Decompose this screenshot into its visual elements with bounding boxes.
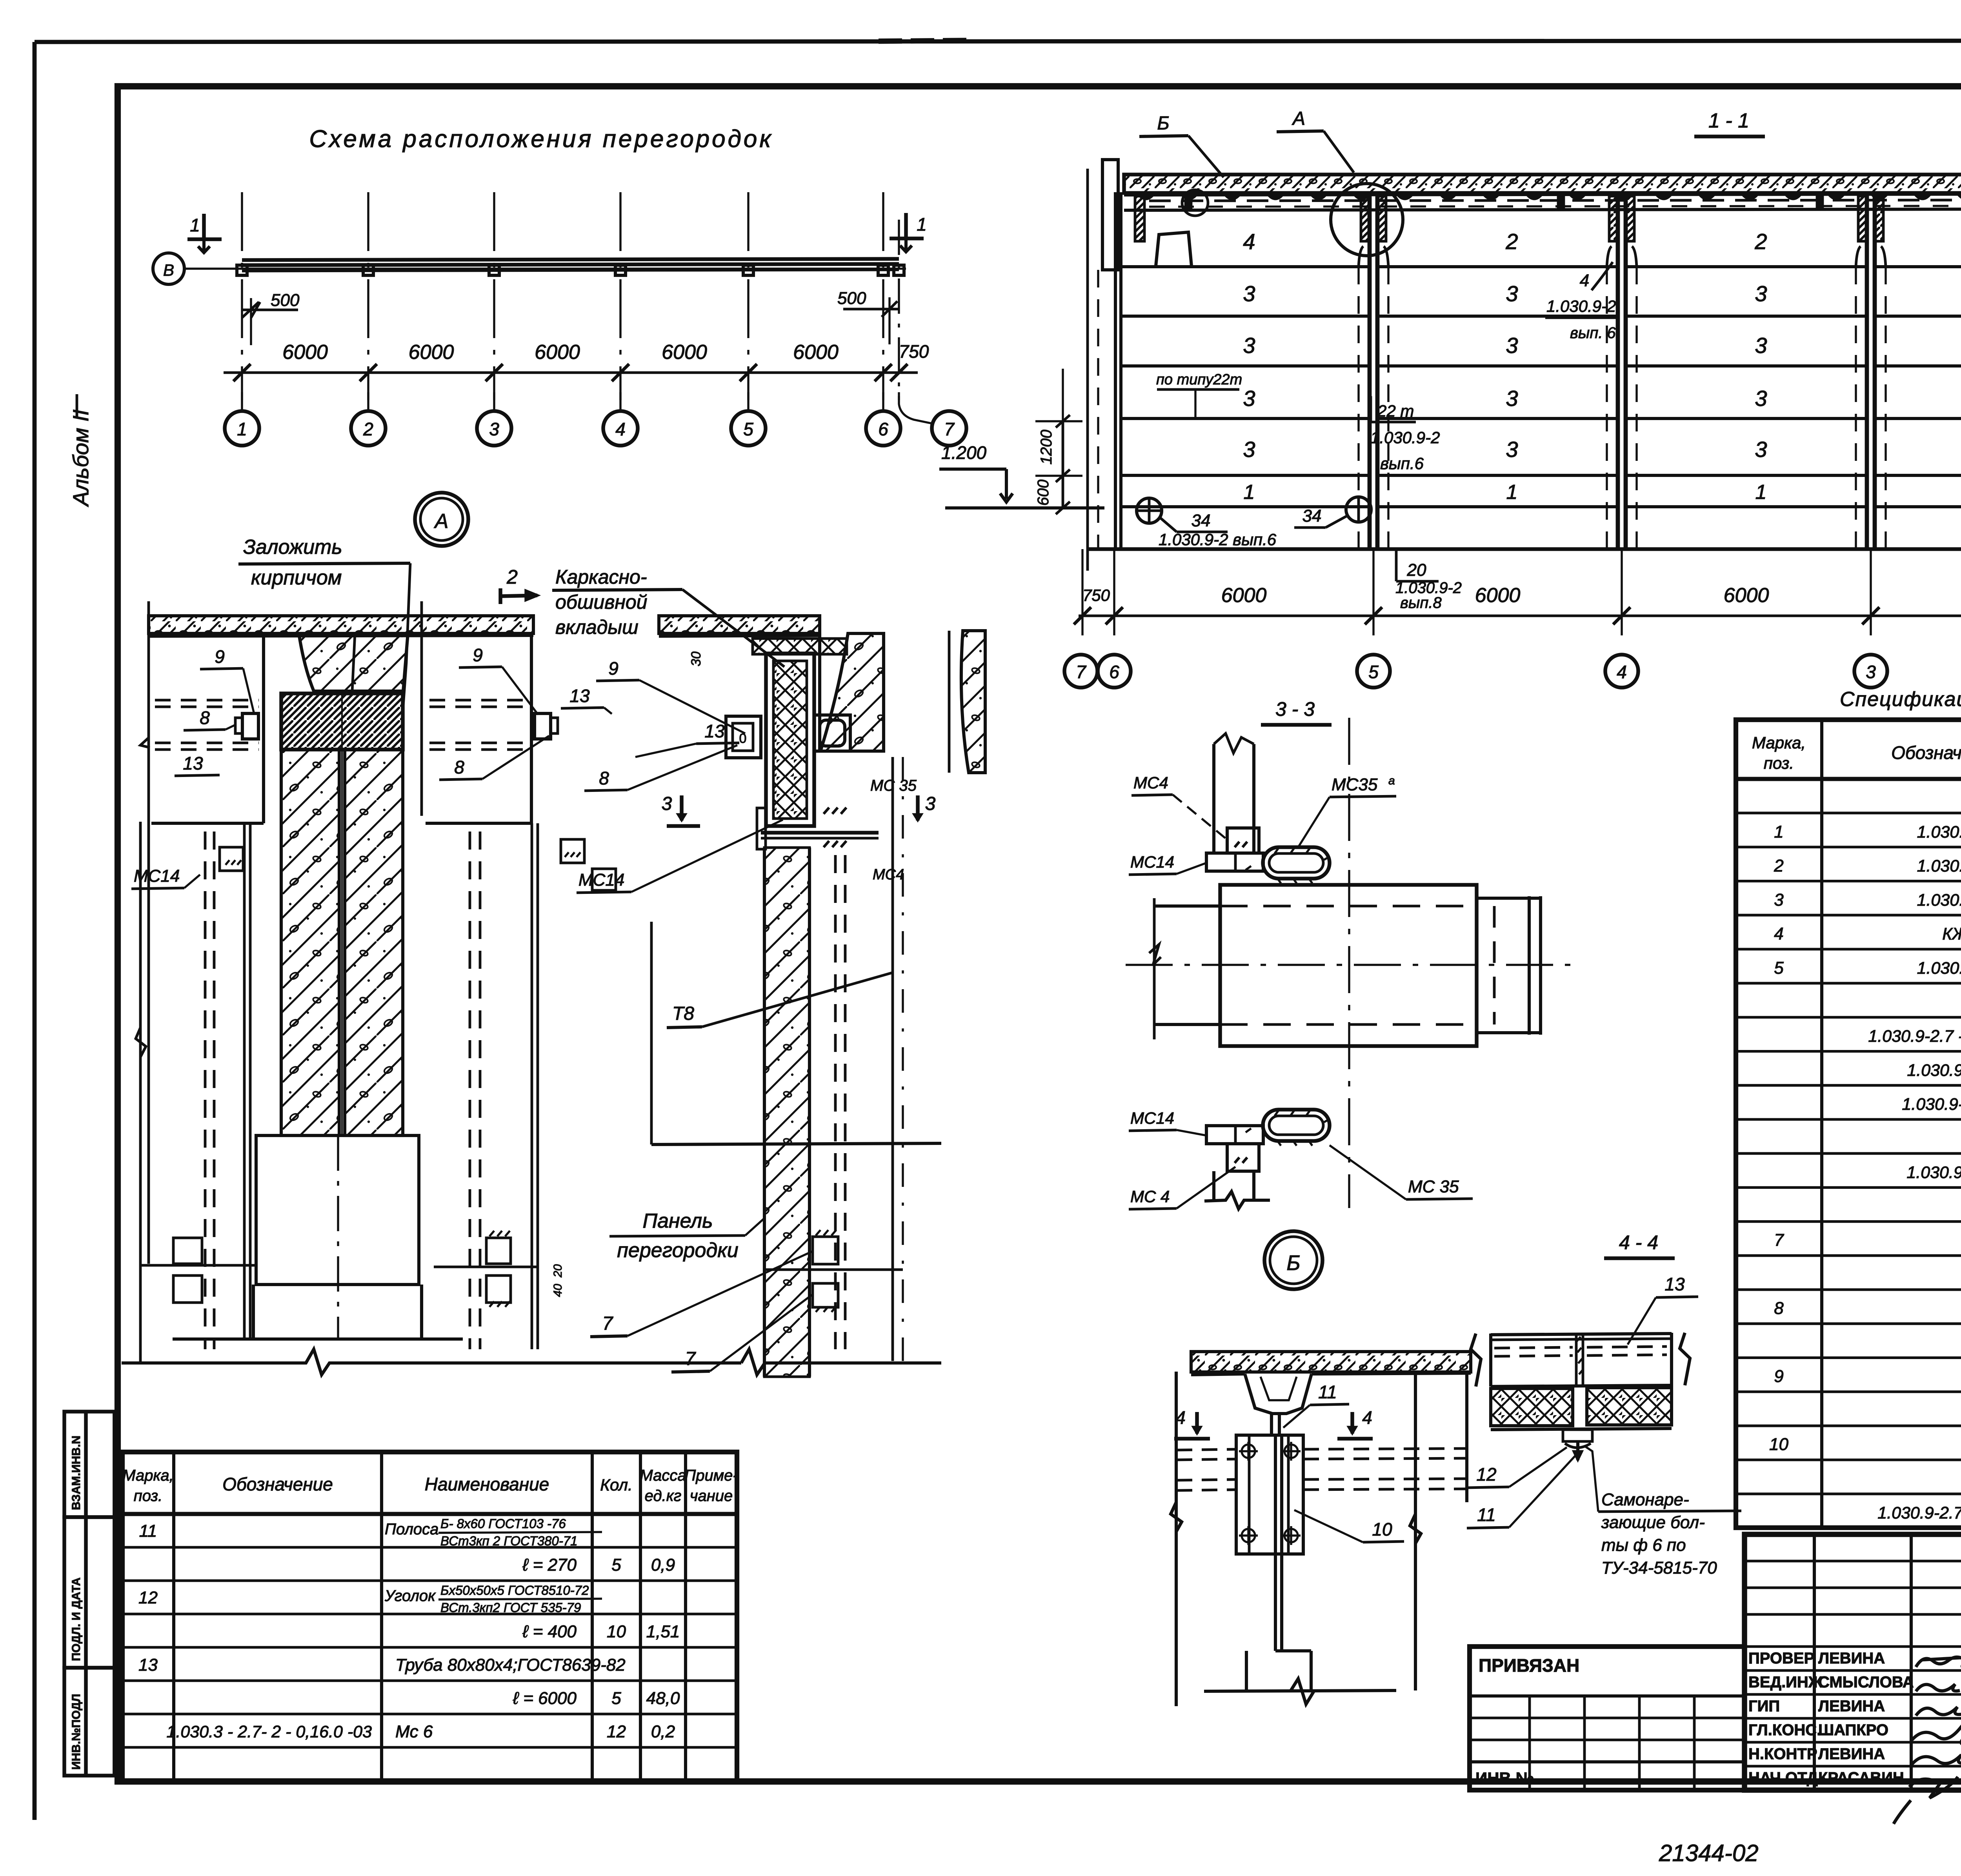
MC4 box bottom: [1227, 1144, 1259, 1171]
plan axis circles: [225, 411, 259, 446]
svg-text:13: 13: [704, 721, 725, 741]
svg-text:Приме-: Приме-: [684, 1467, 738, 1484]
dashed panel lines left: [155, 699, 259, 702]
svg-text:600: 600: [1035, 480, 1052, 506]
svg-text:ПРИВЯЗАН: ПРИВЯЗАН: [1479, 1655, 1579, 1676]
panel strip below T8: [763, 848, 766, 1377]
svg-text:Марка,: Марка,: [1752, 733, 1806, 752]
svg-text:Панель: Панель: [642, 1210, 713, 1232]
svg-text:МС4: МС4: [1133, 773, 1168, 792]
svg-text:1.030.9-2.7 -2- 0.16.а -02: 1.030.9-2.7 -2- 0.16.а -02: [1868, 1027, 1961, 1046]
svg-text:Т8: Т8: [672, 1003, 694, 1024]
svg-text:1.030.9-2 вып.6: 1.030.9-2 вып.6: [1159, 530, 1277, 549]
svg-text:Б- 8х60 ГОСТ103 -76: Б- 8х60 ГОСТ103 -76: [440, 1516, 566, 1531]
left haunch: [299, 633, 408, 691]
detail B rib: [1245, 1374, 1312, 1414]
title block right part: [1745, 1534, 1961, 1790]
svg-text:ед.кг: ед.кг: [645, 1487, 682, 1505]
svg-text:МС 4: МС 4: [1130, 1187, 1170, 1206]
horizontal line mid detail: [651, 1143, 941, 1145]
xx packing under slab: [753, 639, 847, 654]
svg-text:1.030.9-2: 1.030.9-2: [1546, 297, 1616, 315]
svg-text:6000: 6000: [1221, 584, 1267, 607]
left wall lines: [1086, 169, 1089, 571]
svg-text:поз.: поз.: [134, 1487, 163, 1505]
section bottom dim line: [1079, 615, 1961, 617]
svg-text:Обозначение: Обозначение: [1891, 742, 1961, 763]
dashed lines under roof: [1149, 200, 1961, 201]
svg-text:4: 4: [615, 419, 626, 439]
plan main dim line: [224, 371, 918, 374]
detail B slab band: [1191, 1352, 1471, 1372]
svg-text:обшивной: обшивной: [555, 591, 647, 613]
svg-text:вып. 6: вып. 6: [1570, 324, 1616, 342]
svg-text:1: 1: [1244, 481, 1255, 504]
detail circle A on section: [1331, 184, 1403, 256]
svg-text:4 - 4: 4 - 4: [1619, 1232, 1658, 1254]
svg-text:ЛЕВИНА: ЛЕВИНА: [1818, 1745, 1885, 1763]
svg-text:МС 35: МС 35: [870, 777, 917, 794]
dashed connector squares lower: [173, 1238, 202, 1264]
svg-text:5: 5: [611, 1556, 621, 1575]
base strip: [252, 1285, 255, 1339]
svg-text:11: 11: [1477, 1505, 1496, 1525]
section panel top line: [1124, 209, 1961, 210]
svg-text:3: 3: [925, 793, 936, 814]
svg-text:Марка,: Марка,: [122, 1467, 174, 1484]
svg-text:ЛЕВИНА: ЛЕВИНА: [1818, 1698, 1885, 1715]
svg-text:ВЕД.ИНЖ: ВЕД.ИНЖ: [1748, 1674, 1823, 1691]
svg-text:по типу22т: по типу22т: [1156, 371, 1242, 388]
section interior columns: [1368, 193, 1372, 549]
svg-text:3: 3: [662, 793, 672, 814]
svg-text:1.030.9 - 2.1 - 05.0: 1.030.9 - 2.1 - 05.0: [1917, 857, 1961, 875]
svg-text:20: 20: [551, 1264, 564, 1278]
signature column lines: [1743, 1534, 1746, 1790]
svg-text:4: 4: [1774, 924, 1783, 944]
svg-text:6000: 6000: [1724, 584, 1769, 607]
svg-text:Самонаре-: Самонаре-: [1601, 1490, 1689, 1509]
connector boxes mid second: [561, 839, 584, 863]
svg-text:6000: 6000: [535, 341, 580, 364]
svg-text:Заложить: Заложить: [243, 536, 342, 559]
svg-text:3: 3: [1774, 890, 1784, 910]
svg-text:1: 1: [1755, 481, 1767, 504]
panel right extension: [1477, 897, 1541, 900]
svg-text:3: 3: [1506, 386, 1518, 411]
svg-text:1 - 1: 1 - 1: [1708, 109, 1749, 132]
4-4 fastener: [1563, 1430, 1592, 1441]
svg-text:20: 20: [1407, 560, 1426, 580]
svg-text:11: 11: [139, 1521, 157, 1541]
svg-text:0,9: 0,9: [651, 1556, 675, 1575]
svg-text:1.030.9- 2.4 - 03 КМ: 1.030.9- 2.4 - 03 КМ: [1907, 1061, 1961, 1080]
axis B circle: [153, 253, 184, 284]
svg-text:2: 2: [1774, 856, 1783, 875]
svg-text:3: 3: [1243, 386, 1255, 411]
svg-text:кирпичом: кирпичом: [251, 566, 342, 589]
svg-text:ГИП: ГИП: [1748, 1698, 1780, 1715]
svg-text:Бх50х50х5 ГОСТ8510-72: Бх50х50х5 ГОСТ8510-72: [440, 1583, 589, 1598]
svg-text:4: 4: [1617, 662, 1627, 682]
svg-text:3: 3: [1506, 281, 1518, 306]
svg-text:500: 500: [271, 291, 300, 310]
svg-text:9: 9: [215, 646, 225, 667]
svg-text:зающие бол-: зающие бол-: [1601, 1513, 1705, 1532]
svg-text:А: А: [434, 510, 449, 533]
svg-text:В: В: [163, 261, 174, 279]
svg-text:а: а: [1388, 774, 1395, 787]
svg-text:8: 8: [599, 768, 609, 788]
svg-text:2: 2: [506, 566, 518, 588]
callout 34 bottom-left pair: [1137, 498, 1162, 523]
3-3 bottom post: [1212, 1171, 1215, 1200]
svg-text:9: 9: [1774, 1367, 1783, 1386]
weld marks xxx right: [824, 808, 846, 814]
plate below T8: [761, 831, 879, 835]
svg-text:ВСт3кп 2 ГОСТ380-71: ВСт3кп 2 ГОСТ380-71: [440, 1534, 578, 1548]
svg-text:3: 3: [489, 419, 499, 439]
detail A slab band: [149, 616, 533, 633]
svg-text:вып.8: вып.8: [1400, 594, 1442, 611]
outer page border: [35, 40, 1961, 42]
svg-text:2: 2: [1754, 229, 1767, 254]
svg-text:6000: 6000: [662, 341, 707, 364]
4-4 xhatch bands: [1491, 1388, 1573, 1426]
section left dim chain: [1062, 421, 1064, 508]
svg-text:ИНВ.№: ИНВ.№: [1475, 1769, 1534, 1787]
svg-text:3: 3: [1243, 281, 1255, 306]
connection plates detail B: [1236, 1435, 1303, 1554]
svg-text:МС14: МС14: [578, 870, 624, 890]
left neighbor lines 3-3: [1153, 898, 1156, 1039]
svg-text:Спецификация перегородок и: Спецификация перегородок и элементов их …: [1840, 688, 1961, 711]
svg-text:ИНВ.№ПОДЛ: ИНВ.№ПОДЛ: [70, 1694, 83, 1770]
detail B bottom: [1245, 1651, 1248, 1691]
svg-text:21344-02: 21344-02: [1659, 1840, 1759, 1866]
svg-text:ВЗАМ.ИНВ.N: ВЗАМ.ИНВ.N: [70, 1436, 83, 1510]
svg-text:7: 7: [1774, 1230, 1784, 1250]
stud below rib: [1270, 1414, 1273, 1436]
MC14 plate top: [1206, 853, 1263, 871]
svg-text:6000: 6000: [793, 341, 839, 364]
MC35 stadium bottom: [1263, 1110, 1330, 1141]
svg-text:1.030.3 - 2.7- 2 - 0,16.0 -03: 1.030.3 - 2.7- 2 - 0,16.0 -03: [167, 1723, 372, 1741]
svg-text:СМЫСЛОВА: СМЫСЛОВА: [1818, 1674, 1914, 1691]
svg-text:Н.КОНТР: Н.КОНТР: [1748, 1745, 1817, 1763]
svg-text:40: 40: [551, 1284, 564, 1297]
svg-text:5: 5: [611, 1689, 621, 1708]
svg-text:9: 9: [473, 645, 483, 665]
svg-text:ВСт.3кп2 ГОСТ 535-79: ВСт.3кп2 ГОСТ 535-79: [440, 1600, 581, 1615]
svg-text:ЛЕВИНА: ЛЕВИНА: [1818, 1650, 1885, 1667]
svg-text:3: 3: [1755, 281, 1767, 306]
svg-text:3: 3: [1243, 437, 1255, 462]
svg-text:ℓ = 270: ℓ = 270: [522, 1556, 577, 1575]
svg-text:750: 750: [899, 341, 929, 362]
svg-text:3 - 3: 3 - 3: [1275, 698, 1315, 720]
brick infill block: [281, 693, 403, 750]
connector boxes bottom right strip: [813, 1237, 838, 1264]
svg-text:8: 8: [1774, 1299, 1784, 1318]
svg-text:1.030.9 - 2.1 - 05.0: 1.030.9 - 2.1 - 05.0: [1917, 891, 1961, 910]
break on left line: [136, 1028, 146, 1057]
svg-text:вып.6: вып.6: [1380, 454, 1424, 473]
ground line detail A: [122, 1349, 741, 1375]
roof slab band: [1124, 175, 1961, 193]
svg-text:1.030.9-2.7-2-0.16.0 -06: 1.030.9-2.7-2-0.16.0 -06: [1877, 1503, 1961, 1522]
svg-text:КЖИ.601.00.00: КЖИ.601.00.00: [1942, 925, 1961, 944]
svg-text:1: 1: [1506, 481, 1518, 504]
svg-text:Кол.: Кол.: [600, 1476, 633, 1494]
svg-text:МС35: МС35: [1332, 775, 1378, 794]
svg-text:ℓ = 6000: ℓ = 6000: [513, 1689, 577, 1708]
svg-text:34: 34: [1302, 506, 1322, 526]
second panel (middle): [420, 601, 423, 816]
broken segment on top border: [879, 40, 973, 41]
svg-text:2: 2: [363, 419, 373, 439]
detail B panels dashed: [1177, 1449, 1236, 1450]
svg-text:МС4: МС4: [873, 866, 904, 883]
left margin label boxes: [64, 1412, 115, 1517]
detail circle B tie on section: [1182, 190, 1208, 216]
MC4 box top: [1227, 828, 1259, 853]
svg-text:13: 13: [569, 686, 590, 706]
svg-text:48,0: 48,0: [646, 1689, 680, 1708]
svg-text:4: 4: [1175, 1407, 1186, 1428]
svg-text:0,2: 0,2: [651, 1722, 675, 1741]
plan axis lines: [241, 192, 243, 400]
detail circle A label: [415, 493, 468, 546]
3-3 top post: [1212, 744, 1215, 853]
svg-text:6000: 6000: [1475, 584, 1521, 607]
column plain below: [256, 1135, 419, 1285]
left wall hatched piece: [1135, 196, 1144, 241]
svg-text:вкладыш: вкладыш: [555, 616, 639, 638]
svg-text:МС14: МС14: [1130, 853, 1174, 871]
svg-text:500: 500: [837, 289, 866, 308]
svg-text:Полоса: Полоса: [385, 1521, 438, 1538]
detail circle B label: [1264, 1231, 1322, 1289]
right haunch: [820, 633, 884, 751]
svg-text:7: 7: [944, 419, 955, 439]
svg-text:Мс 6: Мс 6: [395, 1722, 433, 1741]
svg-text:2: 2: [1505, 229, 1518, 254]
section axis circles: [1064, 655, 1097, 688]
svg-text:Каркасно-: Каркасно-: [555, 566, 647, 588]
svg-text:Б: Б: [1286, 1251, 1300, 1275]
MC35a stadium top: [1263, 847, 1330, 879]
svg-text:Труба 80х80х4;ГОСТ8639-82: Труба 80х80х4;ГОСТ8639-82: [395, 1656, 626, 1675]
svg-text:6: 6: [878, 419, 888, 439]
floor line: [1089, 547, 1961, 551]
svg-text:3: 3: [1506, 437, 1518, 462]
svg-text:МС14: МС14: [134, 866, 180, 886]
svg-text:1.030.9 - 2.1 - 05.0: 1.030.9 - 2.1 - 05.0: [1917, 959, 1961, 977]
svg-text:750: 750: [1082, 586, 1110, 604]
svg-text:12: 12: [1476, 1464, 1496, 1485]
T8 channel column: [766, 653, 814, 826]
svg-text:7: 7: [685, 1348, 697, 1369]
svg-text:Обозначение: Обозначение: [222, 1474, 333, 1494]
rib hatch: [1251, 1380, 1306, 1396]
svg-text:9: 9: [608, 658, 618, 679]
privyazan box: [1470, 1647, 1745, 1790]
svg-text:13: 13: [138, 1656, 158, 1675]
svg-text:3: 3: [1506, 333, 1518, 358]
svg-text:1200: 1200: [1038, 430, 1055, 465]
svg-text:11: 11: [1318, 1382, 1337, 1402]
dashed lines second panel lower: [469, 832, 471, 1349]
plan axis B line: [184, 267, 906, 269]
svg-text:6000: 6000: [282, 341, 328, 364]
svg-text:6000: 6000: [409, 341, 454, 364]
svg-text:1.030.9 - 2.1 - 06.0: 1.030.9 - 2.1 - 06.0: [1917, 822, 1961, 841]
svg-text:6: 6: [1109, 662, 1119, 682]
svg-text:чание: чание: [690, 1487, 733, 1505]
svg-text:МС 35: МС 35: [1408, 1177, 1459, 1196]
svg-text:1.200: 1.200: [941, 442, 987, 463]
svg-text:13: 13: [1664, 1274, 1685, 1294]
MC14 plate bottom: [1206, 1126, 1263, 1144]
svg-text:ты ф 6 по: ты ф 6 по: [1601, 1536, 1686, 1555]
4-4 breaks: [1471, 1334, 1481, 1387]
big column concrete right part: [345, 750, 403, 1135]
svg-text:Наименование: Наименование: [425, 1474, 549, 1494]
signatures squiggles: [1916, 1657, 1961, 1668]
svg-text:Б: Б: [1157, 113, 1169, 134]
svg-text:ШАПКРО: ШАПКРО: [1818, 1721, 1888, 1739]
plan wall band: [242, 259, 899, 260]
svg-text:7: 7: [1076, 662, 1086, 682]
right edge hatched strip: [961, 631, 985, 773]
svg-text:1: 1: [1774, 822, 1783, 841]
svg-text:ПРОВЕР.: ПРОВЕР.: [1748, 1650, 1816, 1667]
svg-text:1.030.9-2.7-2- 0.29.0: 1.030.9-2.7-2- 0.29.0: [1902, 1095, 1961, 1114]
small connector boxes mid-left: [220, 847, 243, 871]
svg-text:3: 3: [1755, 437, 1767, 462]
svg-text:3: 3: [1243, 333, 1255, 358]
svg-text:КРАСАВИН: КРАСАВИН: [1818, 1769, 1904, 1787]
svg-text:Масса: Масса: [640, 1467, 686, 1484]
svg-text:Альбом II: Альбом II: [68, 409, 93, 507]
right connector boxes second panel: [486, 1238, 511, 1264]
svg-text:4: 4: [1362, 1407, 1372, 1428]
svg-text:ℓ = 400: ℓ = 400: [522, 1622, 577, 1641]
svg-text:12: 12: [607, 1722, 626, 1741]
connector 8/9 left wall: [242, 713, 258, 739]
svg-text:ГЛ.КОНС.: ГЛ.КОНС.: [1748, 1721, 1821, 1739]
svg-text:12: 12: [138, 1588, 158, 1607]
connector left of T8: [726, 716, 761, 758]
svg-text:МС14: МС14: [1130, 1109, 1174, 1127]
svg-text:1,51: 1,51: [646, 1622, 680, 1641]
svg-text:Схема расположения перегоро: Схема расположения перегородок: [309, 126, 773, 153]
outside ground line left: [945, 506, 1104, 509]
svg-text:перегородки: перегородки: [617, 1239, 738, 1262]
svg-text:3: 3: [1755, 333, 1767, 358]
svg-text:10: 10: [1769, 1435, 1788, 1454]
bottom table frame: [122, 1452, 737, 1781]
spec table frame: [1736, 720, 1961, 1528]
svg-text:Уголок: Уголок: [384, 1587, 436, 1605]
left wall panel outline: [147, 601, 150, 1264]
svg-text:поз.: поз.: [1764, 754, 1794, 772]
svg-text:1.030.9-2.7-2-0.18.0: 1.030.9-2.7-2-0.18.0: [1906, 1163, 1961, 1182]
svg-text:3: 3: [1755, 386, 1767, 411]
svg-text:3: 3: [1866, 662, 1876, 682]
svg-text:НАЧ.ОТД: НАЧ.ОТД: [1748, 1769, 1818, 1787]
svg-text:1: 1: [917, 214, 927, 235]
svg-text:30: 30: [689, 651, 704, 666]
svg-text:7: 7: [602, 1313, 614, 1334]
connector 8/9 second panel: [535, 713, 551, 739]
svg-text:1.030.9-2: 1.030.9-2: [1370, 428, 1440, 447]
svg-text:22 т: 22 т: [1377, 402, 1414, 420]
svg-text:5: 5: [1774, 958, 1784, 977]
detail B outline: [1175, 1372, 1178, 1706]
3-3 main panel: [1220, 885, 1477, 1046]
big column concrete left part: [281, 750, 339, 1135]
4-4 panels top: [1491, 1334, 1672, 1335]
connector right of T8 (tube 13): [814, 715, 850, 751]
svg-text:13: 13: [183, 753, 203, 773]
svg-text:34: 34: [1192, 511, 1211, 530]
svg-text:1: 1: [237, 419, 247, 439]
svg-text:ТУ-34-5815-70: ТУ-34-5815-70: [1601, 1558, 1717, 1578]
svg-text:10: 10: [607, 1622, 626, 1641]
dashed lines right of strip: [834, 855, 837, 1349]
4-4 solid line mid: [1491, 1385, 1672, 1387]
svg-text:ПОДЛ. И ДАТА: ПОДЛ. И ДАТА: [70, 1578, 83, 1661]
svg-text:5: 5: [1368, 662, 1379, 682]
svg-text:10: 10: [1372, 1519, 1392, 1539]
left bay trapezoid door: [1156, 232, 1192, 266]
svg-text:8: 8: [200, 708, 210, 728]
section row lines: [1121, 265, 1370, 268]
svg-text:А: А: [1292, 108, 1305, 129]
svg-text:1: 1: [190, 215, 200, 235]
svg-text:8: 8: [454, 757, 464, 777]
svg-text:4: 4: [1243, 229, 1255, 254]
svg-text:4: 4: [1580, 271, 1589, 290]
section left wall riser: [1102, 160, 1118, 270]
svg-text:5: 5: [743, 419, 753, 439]
